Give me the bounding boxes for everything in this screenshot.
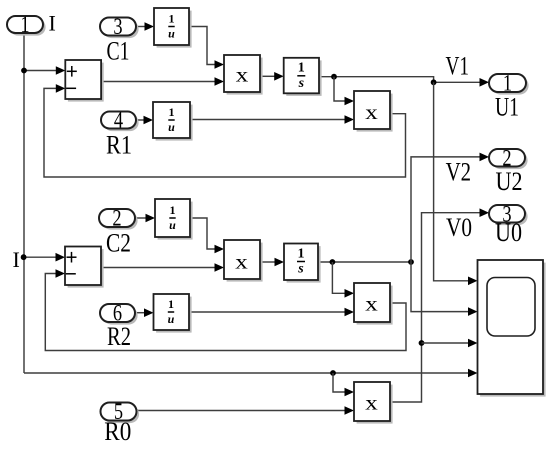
svg-text:x: x	[235, 249, 248, 273]
svg-text:1: 1	[169, 105, 175, 119]
svg-text:R1: R1	[106, 131, 132, 160]
svg-text:x: x	[365, 291, 378, 315]
svg-text:I: I	[49, 11, 56, 36]
svg-text:U1: U1	[495, 93, 519, 122]
svg-text:2: 2	[112, 206, 121, 231]
svg-text:R0: R0	[104, 417, 131, 446]
svg-text:s: s	[297, 262, 304, 277]
svg-text:V1: V1	[446, 51, 470, 80]
svg-text:V0: V0	[446, 213, 472, 242]
svg-text:C2: C2	[106, 229, 131, 258]
svg-text:V2: V2	[446, 158, 472, 187]
svg-text:1: 1	[169, 11, 175, 25]
svg-text:u: u	[168, 120, 175, 134]
svg-text:4: 4	[114, 108, 124, 133]
svg-text:U2: U2	[496, 167, 523, 196]
svg-text:I: I	[13, 247, 20, 272]
svg-text:1: 1	[298, 246, 305, 261]
svg-text:u: u	[169, 218, 176, 232]
svg-text:R2: R2	[107, 322, 131, 351]
svg-text:x: x	[365, 100, 378, 124]
svg-text:1: 1	[298, 61, 305, 76]
svg-text:x: x	[236, 62, 249, 86]
svg-text:C1: C1	[107, 37, 130, 66]
svg-text:1: 1	[168, 297, 174, 311]
svg-text:U0: U0	[495, 218, 522, 247]
svg-text:u: u	[168, 27, 175, 41]
svg-text:s: s	[298, 76, 305, 91]
svg-text:1: 1	[20, 12, 29, 37]
svg-text:1: 1	[170, 203, 176, 217]
svg-text:3: 3	[113, 14, 122, 39]
svg-text:u: u	[168, 312, 175, 326]
svg-text:x: x	[365, 390, 378, 414]
